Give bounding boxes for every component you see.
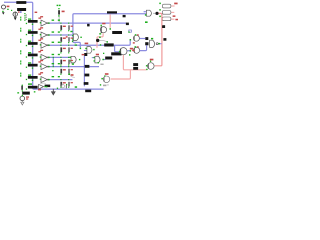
green gate U4 marks — [70, 57, 71, 58]
NAND gate right block — [150, 40, 159, 47]
green gate U2 marks — [75, 44, 77, 45]
green no-connect row6 — [69, 74, 71, 76]
resistor R3a — [60, 47, 62, 52]
red resistor values row2 — [63, 38, 66, 39]
junction dot on red x97.7 — [96, 39, 99, 42]
label box of circle gate U3 — [111, 52, 121, 55]
wire link ch4 to ch5 at x53.3 — [52, 57, 54, 66]
buzzer circle bottom-left — [20, 96, 25, 101]
connector P3 — [162, 17, 171, 21]
double label box lower red net — [133, 67, 138, 70]
connector P1 — [162, 4, 171, 8]
green junction dots x53 — [53, 57, 54, 58]
red resistor values row5 — [63, 69, 66, 70]
red labels IC row4 — [38, 51, 41, 52]
green resistor pins row6 — [60, 79, 61, 80]
resistor R20 bottom-left — [21, 86, 23, 90]
red labels IC row5 — [38, 61, 41, 62]
label box B — [17, 8, 26, 11]
junction square red riser y26 — [162, 25, 165, 28]
circle gate U8 bottom — [103, 76, 110, 83]
IC U14 label box row4 — [28, 54, 38, 57]
buffer T5 row5 — [41, 64, 49, 70]
wire red U3 bottom to U7 lower input — [123, 55, 146, 70]
green IC pins row4 — [26, 56, 27, 57]
buffer T7 row7 — [39, 83, 46, 89]
green circle U3 pins — [130, 50, 132, 52]
wire bus y13.8 to final gate with descender x72.9 ending y41.3 — [73, 14, 146, 41]
label box on x84.4 net over ch5 — [85, 65, 90, 68]
red resistor values row1 — [63, 26, 66, 27]
green resistor pins row2 — [60, 34, 61, 35]
circle gate B right block — [134, 47, 140, 53]
green top-left marks — [7, 9, 9, 10]
label box bottom-left — [22, 92, 30, 95]
junction square circle B net — [145, 42, 148, 45]
wire mid net drop x114.6 to circle gate U3 — [115, 45, 120, 52]
wire bus branch corner to x80.3 down to y47.7 — [73, 42, 81, 47]
red labels IC row6 — [38, 74, 41, 75]
resistor R5a — [60, 69, 62, 74]
IC U17 label box row7 — [28, 86, 38, 89]
wire red connector P2 tail — [171, 11, 174, 13]
green +5V marks — [57, 5, 59, 6]
resistor R2a — [60, 37, 62, 42]
small circle on bottom wire — [61, 85, 64, 88]
green IC pins row5 — [26, 67, 27, 68]
green net labels above channel 4 — [52, 54, 55, 55]
green comparator U7 pins — [146, 65, 147, 66]
NAND output pin and stub — [159, 43, 161, 45]
wire channel 5 long to x104 — [49, 66, 99, 68]
final gate U9 — [146, 10, 151, 16]
green net labels above channel 5 — [52, 63, 55, 64]
polarity mark below X1 — [2, 12, 5, 14]
gate U4 — [71, 56, 76, 63]
wire channel 4 — [49, 56, 70, 58]
green gate U1 marks — [70, 31, 72, 32]
resistor R4b — [68, 60, 70, 65]
red label circle U3 out — [130, 48, 133, 50]
junction square below U2 — [84, 53, 87, 56]
wire channel 2 — [49, 34, 73, 36]
green net labels above channel 1 — [52, 20, 55, 21]
wire channel 6 — [49, 79, 73, 81]
resistor R1a — [60, 25, 62, 30]
red label X1 — [7, 6, 10, 8]
junction dot final gate U9 output — [155, 12, 158, 15]
grey arc at descender end — [73, 42, 76, 43]
green circle U8 pin — [101, 78, 103, 80]
circle device T top — [100, 26, 106, 33]
IC U13 label box row3 — [28, 42, 38, 45]
wire red branch down to circle U8 output — [111, 70, 131, 79]
ground on bottom wire x53.3 — [52, 89, 55, 95]
double label box upper red net — [133, 63, 138, 66]
red labels buzzer — [26, 96, 29, 97]
pull-up resistor R0 x59 — [58, 10, 60, 22]
wire vertical x84.4 from U2 junction down to y86.3 — [83, 56, 85, 86]
label box U5 output — [105, 57, 112, 60]
green bottom wire marks — [44, 86, 45, 87]
green IC pins row3 — [26, 45, 27, 46]
green IC1 pin column — [24, 13, 25, 14]
IC U11 label box row1 — [28, 20, 38, 23]
green speck above U3 label box — [103, 53, 104, 54]
green buffer pins row4 — [40, 56, 41, 57]
red labels connectors — [174, 3, 177, 5]
wire channel 1 — [49, 22, 127, 24]
green resistor pins row4 — [60, 57, 61, 58]
green pin red stub x110 — [110, 28, 112, 30]
wire W1 rail: top horizontal, left vertical x32.7, bottom horizontal y89.1 — [4, 2, 104, 89]
green gate U5 marks — [94, 57, 95, 58]
green ch5 below pin — [52, 70, 53, 71]
label box on x84.4 net mid — [85, 74, 90, 77]
red resistor values row3 — [63, 48, 66, 49]
wire red main from U9 junction down x161.9 to comparator U7 output — [155, 13, 162, 65]
red resistor values row4 — [63, 60, 66, 61]
wire circle A output — [140, 38, 146, 40]
junction square red riser y39 — [163, 38, 166, 41]
wire U2 input B stub — [84, 50, 87, 52]
green pin at bus descender end — [72, 41, 74, 43]
label box of circle T — [112, 31, 122, 34]
connector P2 — [162, 11, 171, 15]
wire U5 output stub — [103, 59, 106, 61]
comparator U7 circle — [148, 63, 155, 70]
green resistor pins row3 — [60, 45, 61, 46]
green circle A/B labels — [135, 34, 137, 35]
red label circle T — [102, 23, 105, 25]
wire circle gate U3 output stub — [127, 50, 130, 52]
green pin near ch5 end — [98, 62, 99, 63]
green IC pins row7 — [26, 88, 27, 89]
buffer T6 row6 — [41, 77, 49, 83]
green buffer pins row2 — [40, 34, 41, 35]
resistor R3b — [68, 47, 70, 52]
label box on x84.4 net low — [84, 82, 89, 85]
green net labels above channel 2 — [52, 31, 55, 32]
green IC pins row6 — [26, 79, 27, 80]
resistor R1b — [68, 25, 70, 30]
green bottom-left marks — [22, 85, 23, 86]
green connector labels — [159, 3, 161, 5]
end square ch1 x126 — [126, 23, 129, 26]
buffer T3 row3 — [41, 42, 49, 48]
wire final gate U9 input stub — [144, 11, 147, 13]
red label below U2 — [82, 54, 85, 55]
green buffer pins row6 — [40, 79, 41, 80]
green IC pins row2 — [26, 34, 27, 35]
grey arc from junction dot to pin — [99, 40, 106, 41]
wire channel 3 / mid net with riser x130.2 — [49, 40, 130, 46]
wire U5 input stub — [92, 57, 94, 59]
wire red from circle T down-left to pin x97 — [97, 33, 103, 48]
gate U5 — [95, 56, 100, 63]
green buffer pins row3 — [40, 44, 41, 45]
red label above U2 — [85, 43, 89, 45]
gate U1 — [73, 34, 78, 40]
final gate U9 output stub — [153, 12, 155, 14]
red label R0 — [62, 11, 65, 13]
net flag above riser x130 — [128, 30, 131, 41]
net label box on bus — [107, 11, 117, 13]
IC U16 label box row6 — [28, 76, 38, 79]
circle gate A right block — [133, 35, 139, 41]
crystal circle X1 — [2, 5, 6, 9]
IC U12 label box row2 — [28, 31, 38, 34]
grey text ch5 end — [100, 64, 103, 65]
green IC pins row1 — [26, 23, 27, 24]
label box row7 right — [45, 85, 51, 88]
gate U2 — [87, 47, 92, 54]
green final gate pin and label — [145, 14, 147, 16]
circle gate U3 — [120, 48, 127, 55]
green buffer pins row1 — [40, 22, 41, 23]
green circle T pins — [99, 33, 101, 34]
buffer T1 row1 — [41, 20, 49, 26]
junction square below bus x123.5 — [123, 15, 126, 17]
red label U8 — [105, 73, 109, 75]
ground below buzzer — [21, 101, 24, 105]
wire red riser overlay across connectors — [161, 15, 163, 26]
red label bottom wire — [38, 89, 41, 91]
diode arrow below X2 — [14, 17, 17, 20]
red label left of U1 — [66, 36, 68, 37]
green net labels above channel 6 — [52, 76, 55, 77]
green resistor pins row5 — [60, 66, 61, 67]
red label U7 — [150, 59, 154, 61]
grey arc row6 — [70, 75, 75, 77]
label box on mid net — [104, 43, 114, 46]
red resistor values row6 — [63, 82, 66, 83]
wire red connector P3 tail — [171, 18, 174, 20]
resistor R2b — [68, 37, 70, 42]
junction square on ch1 x88 — [87, 24, 90, 27]
dark pin numbers IC1 column — [26, 15, 27, 20]
red label box B — [18, 11, 20, 12]
buffer T4 row4 — [41, 54, 49, 60]
resistor R6b — [68, 82, 70, 87]
red labels IC row3 — [38, 40, 41, 41]
blue text near box B — [20, 11, 22, 12]
wire red connector P1 tail — [171, 5, 174, 7]
grey text bottom wire end — [103, 85, 106, 87]
wire red stub x110.2 below bus — [109, 14, 111, 27]
buffer T2 row2 — [41, 32, 49, 38]
resistor R4a — [60, 60, 62, 65]
resistor R6a — [60, 82, 62, 87]
red label row6 nc — [71, 74, 74, 76]
wire circle B output riser — [140, 45, 147, 50]
label box on bottom wire — [85, 90, 91, 93]
green net labels above channel 3 — [52, 42, 55, 43]
red label above U5 — [96, 54, 99, 56]
red labels IC row2 — [38, 29, 41, 30]
junction square circle A net — [145, 37, 148, 40]
sensor circle X2 with needle — [13, 12, 17, 17]
red label riser flag — [133, 42, 135, 43]
red labels IC row1 — [38, 18, 41, 19]
label box A top-left — [16, 1, 26, 4]
red labels circle A/B — [137, 34, 139, 35]
resistor R5b — [68, 69, 70, 74]
green resistor pins row1 — [60, 23, 61, 24]
red label below U3 stub — [132, 50, 134, 51]
green buffer pins row5 — [40, 66, 41, 67]
green NAND label — [151, 38, 153, 40]
IC U15 label box row5 — [28, 64, 38, 67]
red label near box B area — [35, 12, 38, 13]
tick component x66.3 — [65, 85, 67, 88]
